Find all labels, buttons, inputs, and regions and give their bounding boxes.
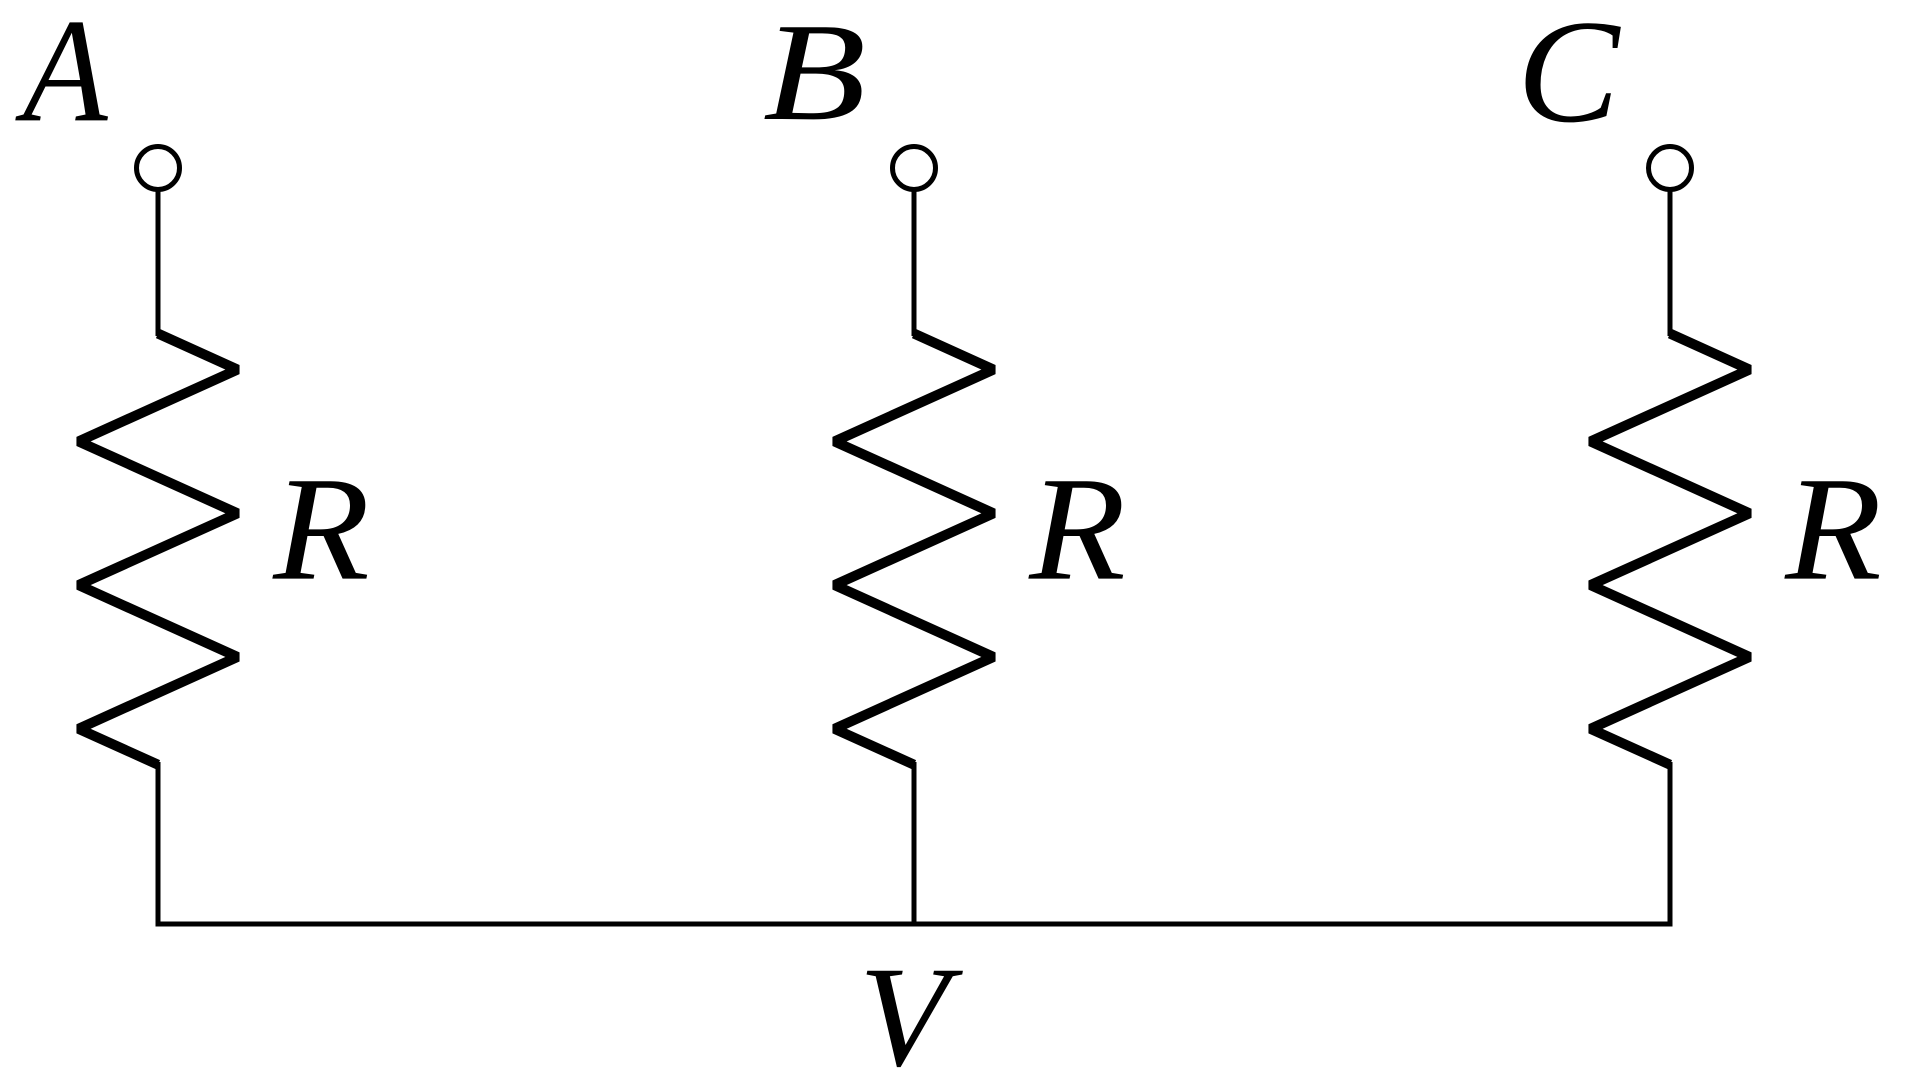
svg-text:A: A	[15, 0, 109, 153]
svg-text:R: R	[1028, 447, 1126, 612]
svg-text:C: C	[1517, 0, 1621, 153]
svg-text:B: B	[763, 0, 866, 150]
svg-text:V: V	[859, 937, 963, 1089]
svg-text:R: R	[272, 447, 370, 612]
svg-text:R: R	[1784, 447, 1882, 612]
